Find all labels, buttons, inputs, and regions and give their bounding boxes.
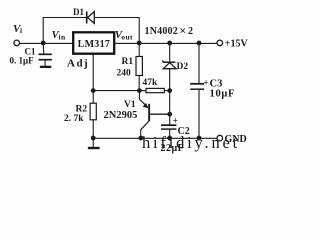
transistor Q1 V1 2N2905 <box>139 91 169 138</box>
node D2 tap <box>167 41 172 46</box>
input terminal Vi <box>14 40 20 46</box>
node collector rail <box>139 136 144 141</box>
collector wire <box>141 121 149 130</box>
svg-text:Adj: Adj <box>67 58 89 70</box>
svg-text:D1: D1 <box>73 7 84 17</box>
wire Adj to R1 bottom <box>93 90 139 92</box>
wire input to LM317 <box>19 42 73 44</box>
svg-text:+: + <box>173 116 178 126</box>
ground (rail) <box>92 138 94 147</box>
svg-text:2. 7k: 2. 7k <box>64 114 84 124</box>
emitter arrow <box>143 103 149 108</box>
resistor R2 <box>92 91 94 104</box>
svg-text:+15V: +15V <box>225 39 249 50</box>
svg-text:LM317: LM317 <box>78 39 111 50</box>
resistor R1 <box>138 43 140 57</box>
svg-text:C2: C2 <box>178 126 190 137</box>
wire D2 node down to base node <box>169 91 171 115</box>
svg-text:+: + <box>204 78 209 88</box>
node C2 rail <box>167 136 172 141</box>
terminal GND <box>217 135 223 141</box>
capacitor C3 <box>190 43 204 138</box>
node Adj <box>91 88 96 93</box>
emitter wire <box>138 91 140 100</box>
svg-text:D2: D2 <box>177 62 189 72</box>
wire LM317 output rail <box>114 42 217 44</box>
svg-text:2N2905: 2N2905 <box>104 110 138 121</box>
svg-text:1N4002×2: 1N4002×2 <box>145 24 194 38</box>
node input junction <box>41 41 46 46</box>
svg-text:R1: R1 <box>122 57 134 67</box>
diode D2 <box>169 43 171 62</box>
svg-text:V1: V1 <box>124 100 136 110</box>
svg-text:22μF: 22μF <box>161 143 185 154</box>
bottom ground rail <box>93 137 217 139</box>
node C3 tap <box>197 41 202 46</box>
node 47k-D2 <box>167 88 172 93</box>
base wire <box>150 113 170 115</box>
svg-text:10μF: 10μF <box>210 89 236 100</box>
base bar <box>148 104 150 121</box>
node R2 ground <box>91 136 96 141</box>
svg-text:240: 240 <box>117 69 132 79</box>
terminal +15V <box>217 40 223 46</box>
node base/C2 <box>167 112 172 117</box>
svg-text:47k: 47k <box>143 78 159 88</box>
svg-text:in: in <box>59 33 66 42</box>
svg-text:GND: GND <box>225 134 247 145</box>
svg-text:i: i <box>20 26 22 35</box>
op-amp regulator U1 LM317 box <box>73 32 114 53</box>
node C3 rail <box>197 136 202 141</box>
wire D1 to output riser <box>94 18 139 44</box>
wire riser to D1 <box>43 18 86 44</box>
diode D1 <box>87 12 95 24</box>
capacitor C2 <box>161 114 176 138</box>
ground (C1) <box>40 66 51 68</box>
svg-text:out: out <box>121 33 133 42</box>
resistor 47k <box>139 90 146 92</box>
node output <box>137 41 142 46</box>
wire Adj pin <box>92 53 94 91</box>
svg-text:0. 1μF: 0. 1μF <box>10 56 35 66</box>
node R1 bottom <box>137 88 142 93</box>
capacitor C1 <box>39 43 52 66</box>
